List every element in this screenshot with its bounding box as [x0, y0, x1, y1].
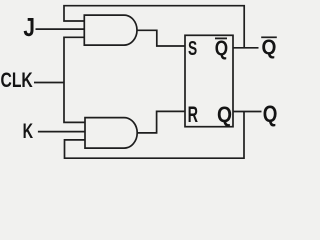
- svg-text:CLK: CLK: [1, 68, 34, 92]
- svg-text:J: J: [23, 13, 35, 42]
- svg-text:Q: Q: [215, 37, 228, 60]
- svg-text:K: K: [23, 119, 33, 142]
- svg-text:Q: Q: [217, 102, 232, 127]
- svg-text:S: S: [188, 36, 197, 59]
- svg-text:R: R: [188, 103, 199, 128]
- svg-text:Q: Q: [263, 102, 278, 127]
- svg-text:Q: Q: [262, 36, 277, 59]
